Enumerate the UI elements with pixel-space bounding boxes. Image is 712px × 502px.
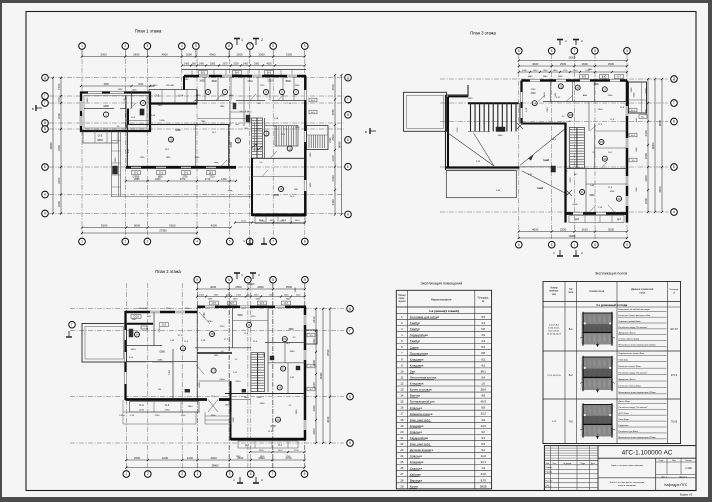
plan1 door swings [130, 103, 136, 109]
svg-text:1420: 1420 [199, 80, 205, 83]
svg-text:9: 9 [304, 278, 306, 282]
svg-text:Д-3: Д-3 [617, 218, 621, 221]
svg-text:Кухня столовая: Кухня столовая [410, 388, 432, 392]
svg-text:17: 17 [400, 412, 403, 416]
svg-text:Стяжка б/бетон 40мм: Стяжка б/бетон 40мм [619, 338, 640, 340]
plan3 right lintel boxes [629, 108, 637, 112]
svg-text:4: 4 [401, 333, 403, 337]
plan1 stair main flight [252, 118, 263, 158]
svg-text:9,6: 9,6 [481, 430, 485, 434]
svg-text:4600: 4600 [266, 64, 272, 66]
plan3 pergola bars / open stair [468, 102, 519, 104]
svg-text:4080: 4080 [528, 76, 533, 78]
plan1 wing top dim line [81, 85, 150, 87]
plan1 wing partition walls [84, 108, 114, 110]
svg-text:28: 28 [400, 478, 403, 482]
svg-text:1400: 1400 [243, 64, 249, 66]
svg-text:4,3: 4,3 [481, 339, 485, 343]
svg-text:17,9: 17,9 [598, 124, 603, 126]
plan3 lower roof rectangle [446, 171, 516, 198]
plan2 window label boxes above top wall [210, 301, 219, 305]
svg-text:1850: 1850 [166, 157, 171, 159]
svg-text:Кабинет: Кабинет [410, 472, 422, 476]
svg-text:Кухня: Кухня [410, 484, 418, 488]
svg-text:1: 1 [401, 315, 403, 319]
svg-text:14,6: 14,6 [481, 424, 487, 428]
svg-text:9: 9 [626, 243, 628, 247]
svg-text:1,60: 1,60 [147, 327, 149, 332]
svg-text:40,9: 40,9 [481, 400, 487, 404]
svg-text:4000: 4000 [211, 224, 218, 228]
svg-text:1,85: 1,85 [528, 174, 533, 176]
svg-text:8: 8 [272, 44, 274, 48]
svg-text:1,65: 1,65 [170, 340, 175, 342]
svg-text:1003: 1003 [208, 299, 213, 301]
plan 3: third floor plan [365, 31, 677, 257]
svg-text:1570: 1570 [222, 64, 228, 66]
svg-text:9,8: 9,8 [481, 406, 485, 410]
plan1 left dimension chain [60, 78, 62, 214]
svg-text:3: 3 [146, 44, 148, 48]
svg-text:2330: 2330 [312, 405, 316, 412]
plan2 right dim chain [315, 309, 317, 443]
svg-text:1400: 1400 [221, 178, 227, 181]
svg-text:6280: 6280 [159, 351, 165, 354]
svg-text:27: 27 [603, 87, 607, 91]
svg-text:21,22,24,26,27: 21,22,24,26,27 [547, 333, 562, 335]
svg-text:8: 8 [272, 278, 274, 282]
svg-text:Зал: Зал [410, 369, 415, 373]
svg-text:Бетонная стяжка 40мм: Бетонная стяжка 40мм [619, 385, 642, 387]
svg-text:4,9: 4,9 [481, 363, 485, 367]
svg-text:5000: 5000 [237, 315, 243, 317]
svg-text:Ванная: Ванная [410, 394, 421, 398]
svg-text:1,3,4,7,8,9,: 1,3,4,7,8,9, [549, 325, 560, 327]
svg-text:О-2: О-2 [139, 403, 144, 407]
svg-text:271,6: 271,6 [671, 374, 678, 377]
svg-text:3740: 3740 [204, 312, 206, 318]
svg-text:24,0: 24,0 [552, 139, 557, 141]
svg-text:Кафедра ПГС: Кафедра ПГС [664, 483, 687, 487]
plan1 bottom dimension lines [82, 227, 231, 229]
plan1 great room walls [127, 125, 229, 168]
plan1 stair cut zigzag [252, 144, 257, 148]
svg-text:7400: 7400 [169, 369, 171, 375]
svg-text:3: 3 [401, 327, 403, 331]
plan1 bathroom cluster [229, 101, 231, 127]
floors explication table [543, 272, 681, 444]
plan2 top wall left section [125, 311, 197, 314]
svg-text:Бетонная Стяжка цем раств 3мм: Бетонная Стяжка цем раств 3мм [619, 315, 651, 317]
plan1 great room label [169, 137, 174, 142]
svg-text:6,45м: 6,45м [219, 379, 225, 381]
svg-text:3740: 3740 [208, 321, 214, 323]
svg-text:Д-1: Д-1 [209, 170, 214, 174]
plan3 stair flight [569, 128, 584, 168]
svg-text:13200: 13200 [569, 235, 576, 238]
svg-text:1810: 1810 [278, 450, 284, 452]
svg-text:2: 2 [147, 472, 149, 476]
plan1 north wall window openings [199, 75, 209, 78]
svg-text:5280: 5280 [158, 360, 164, 362]
plan2 porch door mark [208, 400, 218, 413]
svg-text:6240: 6240 [589, 195, 595, 197]
svg-text:Листов 1: Листов 1 [679, 477, 687, 479]
svg-text:План 3 этажа: План 3 этажа [470, 31, 496, 36]
svg-text:Г: Г [44, 94, 46, 98]
svg-text:Экспликация помещений: Экспликация помещений [420, 281, 462, 285]
svg-text:5: 5 [518, 243, 520, 247]
plan1 corridor lines [197, 118, 251, 120]
svg-text:Б-П: Б-П [582, 76, 586, 78]
svg-text:3150: 3150 [286, 53, 293, 57]
svg-text:5,6: 5,6 [289, 103, 293, 105]
svg-text:1800: 1800 [155, 178, 161, 181]
svg-text:4,450: 4,450 [199, 381, 201, 387]
svg-text:Кладовая: Кладовая [410, 363, 424, 367]
svg-text:О-4: О-4 [179, 94, 184, 98]
svg-text:Монолитная плита перекрытия 22: Монолитная плита перекрытия 220мм [619, 344, 657, 346]
svg-text:2610: 2610 [158, 105, 163, 107]
plan1 top dimension line 2 [182, 65, 305, 67]
svg-text:2500: 2500 [598, 109, 604, 111]
svg-text:2740: 2740 [530, 93, 536, 95]
svg-text:14: 14 [400, 394, 403, 398]
svg-text:8: 8 [304, 472, 306, 476]
svg-text:10: 10 [400, 369, 403, 373]
svg-text:2700: 2700 [166, 308, 171, 310]
svg-text:1800: 1800 [57, 200, 61, 207]
plan3 section flags [559, 39, 561, 45]
plan1 left wing (garage) outer walls [81, 93, 150, 132]
svg-text:Монолитная плита перекрытия 22: Монолитная плита перекрытия 220мм [619, 392, 657, 394]
svg-text:О-2: О-2 [165, 403, 170, 407]
svg-text:25: 25 [400, 460, 403, 464]
plan1 right dimension chain [334, 75, 336, 214]
svg-text:Спальня: Спальня [410, 406, 422, 410]
svg-text:4300: 4300 [103, 105, 109, 108]
plan3 top right bay [629, 82, 647, 113]
svg-text:7: 7 [271, 472, 273, 476]
svg-text:9: 9 [626, 49, 628, 53]
svg-text:21: 21 [281, 367, 285, 371]
plan3 roof bottom edge [446, 166, 520, 168]
svg-text:3500: 3500 [608, 62, 615, 66]
svg-text:2400: 2400 [260, 403, 265, 405]
svg-text:400: 400 [294, 189, 298, 191]
svg-text:7: 7 [401, 351, 403, 355]
svg-text:полов и помещений: полов и помещений [618, 484, 636, 487]
svg-text:6280: 6280 [175, 129, 181, 132]
plan1 section marks 1 2 [236, 38, 238, 45]
svg-text:2,42: 2,42 [233, 372, 238, 374]
plan2 top axis circles [194, 276, 201, 283]
svg-text:2750: 2750 [181, 415, 186, 417]
title block (stamp) [544, 446, 696, 497]
svg-text:9,5: 9,5 [481, 357, 485, 361]
svg-text:2985: 2985 [220, 106, 225, 108]
svg-text:6: 6 [551, 49, 553, 53]
svg-text:2985: 2985 [134, 178, 140, 181]
svg-text:6: 6 [551, 243, 553, 247]
svg-text:щения: щения [398, 300, 406, 303]
svg-text:Планы 1-го этажа здания, экспл: Планы 1-го этажа здания, экспликации [610, 482, 644, 484]
svg-text:О-1: О-1 [159, 170, 164, 174]
svg-text:План 1 этажа: План 1 этажа [135, 29, 162, 34]
svg-text:Б-9: Б-9 [267, 70, 272, 74]
svg-text:Керамическая плитка 8мм: Керамическая плитка 8мм [619, 353, 645, 355]
svg-text:6: 6 [228, 44, 230, 48]
plan2 left axis circle [69, 321, 76, 328]
svg-text:5,98: 5,98 [274, 118, 279, 120]
room table outer border [396, 290, 491, 489]
svg-text:24,0: 24,0 [481, 472, 487, 476]
plan2 walls: top wall right section [197, 306, 306, 309]
svg-text:4,9: 4,9 [481, 321, 485, 325]
svg-text:Постирочная: Постирочная [410, 351, 429, 355]
svg-text:2740: 2740 [155, 415, 160, 417]
svg-text:9,4: 9,4 [481, 436, 485, 440]
svg-text:Наименование: Наименование [431, 297, 452, 301]
svg-text:4640: 4640 [326, 416, 330, 423]
svg-text:Б-5: Б-5 [201, 70, 206, 74]
svg-text:2: 2 [261, 478, 263, 482]
plan1 east outer wall [304, 76, 307, 216]
svg-text:Тамбур: Тамбур [410, 321, 421, 325]
svg-text:1: 1 [125, 472, 127, 476]
svg-text:2000: 2000 [286, 299, 291, 301]
svg-text:2300: 2300 [644, 175, 648, 182]
svg-text:Армирован.Бетон: Армирован.Бетон [619, 332, 636, 335]
plan1 dim line below great room [126, 180, 236, 182]
svg-text:6: 6 [250, 472, 252, 476]
plan1 horizontal axis lines [49, 77, 344, 79]
svg-text:2700: 2700 [182, 177, 188, 179]
svg-text:вход: вход [228, 190, 233, 192]
floors table border [543, 282, 681, 444]
svg-text:Изм.: Изм. [545, 463, 550, 465]
svg-text:1710: 1710 [260, 85, 265, 87]
svg-text:Г: Г [673, 101, 675, 105]
plan3 lintel boxes [580, 75, 589, 79]
svg-text:Детская комната: Детская комната [410, 448, 434, 452]
plan1 lintel marks row [199, 71, 208, 75]
svg-text:4596: 4596 [195, 157, 200, 159]
svg-text:9750: 9750 [251, 316, 256, 318]
svg-text:3400: 3400 [57, 144, 61, 151]
svg-text:1420: 1420 [184, 79, 189, 81]
svg-text:13000: 13000 [248, 283, 255, 286]
svg-text:4,25: 4,25 [552, 421, 557, 423]
svg-text:58,1: 58,1 [165, 149, 170, 151]
svg-text:7: 7 [249, 44, 251, 48]
svg-text:Б: Б [44, 165, 46, 169]
plan3 rooms west window wall lower part [518, 103, 520, 124]
svg-text:9,5: 9,5 [481, 315, 485, 319]
svg-text:1600: 1600 [543, 76, 548, 78]
svg-text:2330: 2330 [331, 175, 335, 182]
svg-text:8790: 8790 [326, 349, 330, 356]
svg-text:28: 28 [569, 113, 573, 117]
plan3 bottom dim lines [519, 231, 627, 233]
plan1 axis grid lines [81, 50, 83, 237]
svg-text:27300: 27300 [159, 229, 167, 233]
svg-text:Сауна: Сауна [410, 345, 419, 349]
svg-text:Тамбур: Тамбур [410, 339, 421, 343]
svg-text:Кол.: Кол. [553, 463, 557, 465]
svg-text:1500: 1500 [57, 83, 61, 90]
svg-text:1090: 1090 [312, 338, 316, 345]
plan2 west outer wall [124, 311, 126, 400]
svg-text:58,1: 58,1 [481, 369, 487, 373]
svg-text:26: 26 [400, 466, 403, 470]
svg-text:22: 22 [400, 442, 403, 446]
svg-text:1900: 1900 [644, 109, 648, 116]
plan3 top row partitions [550, 82, 552, 102]
svg-text:О-Т: О-Т [260, 303, 265, 305]
svg-text:Армирован.Бетон: Армирован.Бетон [619, 378, 636, 381]
svg-text:1000: 1000 [187, 456, 194, 460]
svg-text:2740: 2740 [531, 89, 536, 91]
svg-text:7: 7 [247, 278, 249, 282]
svg-text:32: 32 [617, 197, 621, 201]
plan2 bottom right room [230, 381, 232, 440]
plan3 roof corner x-flag [517, 123, 523, 129]
svg-text:3315: 3315 [87, 97, 89, 102]
svg-text:11: 11 [288, 147, 291, 151]
svg-text:8: 8 [594, 49, 596, 53]
svg-text:1800: 1800 [157, 177, 163, 179]
svg-text:19: 19 [278, 386, 282, 390]
svg-text:2000: 2000 [258, 53, 265, 57]
svg-text:1670: 1670 [331, 155, 335, 162]
svg-text:640: 640 [147, 316, 151, 318]
svg-text:4000: 4000 [210, 456, 217, 460]
svg-text:5000: 5000 [101, 224, 108, 228]
svg-text:П-0: П-0 [569, 420, 574, 423]
svg-text:1250,945: 1250,945 [166, 85, 176, 87]
svg-text:27: 27 [400, 472, 403, 476]
svg-text:5: 5 [518, 49, 520, 53]
svg-text:2500: 2500 [211, 415, 217, 417]
svg-text:1950: 1950 [188, 406, 194, 408]
svg-text:2500: 2500 [259, 450, 265, 452]
svg-text:1: 1 [241, 273, 243, 277]
plan1 window labels below south wall [132, 171, 141, 175]
svg-text:Д-7: Д-7 [245, 445, 249, 447]
svg-text:4500: 4500 [658, 186, 662, 193]
svg-text:6,5: 6,5 [481, 442, 485, 446]
svg-text:2930: 2930 [233, 417, 235, 422]
svg-text:0,97: 0,97 [128, 148, 130, 153]
svg-text:4,9: 4,9 [481, 333, 485, 337]
room explication table [396, 281, 491, 489]
svg-text:1405а: 1405а [119, 415, 125, 417]
svg-text:1,6: 1,6 [481, 381, 485, 385]
svg-text:Гардеробная: Гардеробная [410, 436, 429, 440]
svg-text:2550: 2550 [331, 109, 335, 116]
plan3 roof ridge diagonals [448, 133, 494, 166]
plan3 left section arrow [370, 130, 376, 132]
svg-text:1200: 1200 [140, 157, 145, 159]
plan2 partitions center [196, 307, 198, 362]
svg-text:Б-6: Б-6 [235, 70, 240, 74]
svg-text:4950: 4950 [225, 405, 230, 407]
svg-text:1: 1 [81, 44, 83, 48]
svg-text:Подп.: Подп. [580, 463, 585, 465]
svg-text:6: 6 [228, 278, 230, 282]
svg-text:2: 2 [124, 44, 126, 48]
plan3 door swing marks [538, 95, 545, 102]
svg-text:12: 12 [400, 381, 403, 385]
svg-text:1400: 1400 [131, 349, 137, 351]
svg-text:О-7: О-7 [284, 303, 289, 305]
svg-text:19,6: 19,6 [184, 341, 189, 343]
svg-text:План 2 этажа: План 2 этажа [155, 269, 181, 274]
svg-text:м²: м² [673, 292, 675, 295]
svg-text:Н. конт: Н. конт [546, 487, 552, 489]
svg-text:В-1: В-1 [569, 328, 574, 331]
svg-text:10,11,20,21,: 10,11,20,21, [548, 328, 560, 330]
svg-text:2500: 2500 [134, 456, 141, 460]
svg-text:2,5,6,14,15,19: 2,5,6,14,15,19 [547, 375, 561, 377]
svg-text:Пенобетон марку "Пеноплекс": Пенобетон марку "Пеноплекс" [619, 407, 648, 409]
svg-text:5,8: 5,8 [481, 327, 485, 331]
svg-text:14: 14 [135, 333, 139, 337]
svg-text:2740: 2740 [457, 127, 459, 132]
svg-text:2200: 2200 [236, 53, 243, 57]
svg-text:6300: 6300 [270, 425, 276, 428]
svg-text:3490: 3490 [290, 351, 296, 353]
plan2 lower-left partitions [172, 349, 174, 399]
plan2 entrance steps [205, 415, 231, 417]
plan1 right axis circles [345, 74, 352, 81]
svg-text:9: 9 [304, 44, 306, 48]
svg-text:4: 4 [196, 240, 198, 244]
svg-text:1810: 1810 [295, 220, 301, 222]
svg-text:9: 9 [401, 363, 403, 367]
svg-text:А-7: А-7 [564, 170, 568, 173]
svg-text:2410: 2410 [312, 316, 316, 323]
plan2 porch lower outline [123, 411, 200, 413]
plan1 top row room labels [206, 90, 211, 95]
svg-text:вход: вход [214, 162, 219, 164]
svg-text:1: 1 [553, 251, 555, 255]
svg-text:20,3: 20,3 [131, 117, 136, 119]
svg-text:15: 15 [181, 346, 185, 350]
svg-text:1,05: 1,05 [130, 415, 135, 417]
svg-text:1,606: 1,606 [159, 120, 165, 122]
svg-text:2740: 2740 [547, 107, 549, 113]
svg-text:2500: 2500 [288, 329, 294, 331]
svg-text:4,9: 4,9 [481, 418, 485, 422]
plan2 right bay window [305, 330, 317, 344]
svg-text:В-2: В-2 [569, 374, 574, 377]
svg-text:23: 23 [400, 448, 403, 452]
svg-text:1: 1 [565, 39, 567, 43]
svg-text:14500: 14500 [338, 141, 342, 149]
svg-text:Лист: Лист [672, 460, 676, 462]
svg-text:Клей 4мм: Клей 4мм [619, 359, 629, 362]
plan1 terrace bottom edge [111, 196, 252, 198]
svg-text:3,2: 3,2 [293, 337, 297, 339]
svg-text:5,98: 5,98 [201, 340, 206, 342]
svg-text:2300: 2300 [312, 428, 316, 435]
svg-text:5: 5 [229, 472, 231, 476]
svg-text:Л-1: Л-1 [592, 152, 596, 154]
svg-text:1710: 1710 [247, 80, 253, 83]
svg-text:3,8: 3,8 [258, 103, 262, 105]
